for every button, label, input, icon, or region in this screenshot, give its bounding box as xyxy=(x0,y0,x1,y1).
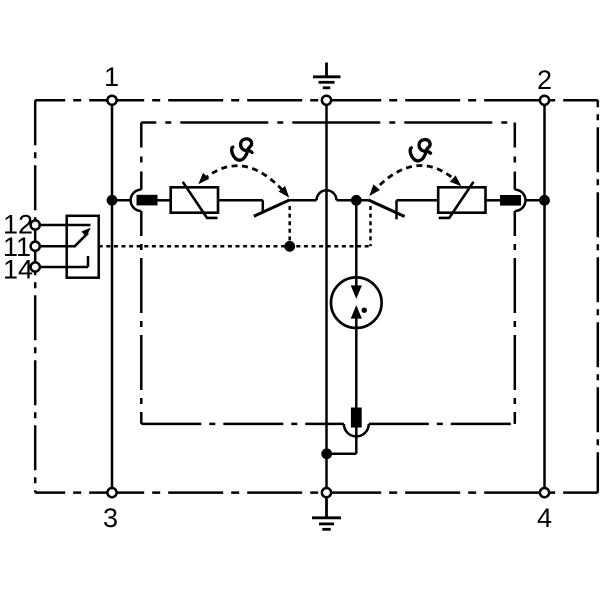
wire: pin to varistor left xyxy=(158,199,171,202)
terminal 12 xyxy=(31,220,40,229)
wire: node to GDT xyxy=(355,200,358,287)
wire hop over centre line xyxy=(317,190,337,200)
contact 14 stub xyxy=(87,256,90,267)
theta label right xyxy=(410,140,430,161)
earth symbol bottom xyxy=(312,498,341,529)
outer enclosure border (dash-dot chain line) xyxy=(35,100,598,492)
wire: across to centre line xyxy=(327,453,357,456)
terminal 14 xyxy=(31,262,40,271)
arrowhead left arc right end xyxy=(279,186,293,200)
wire: terminal 14 lead xyxy=(35,266,88,269)
plug-in pin right (filled) xyxy=(500,195,521,206)
wire: GDT to bottom pin xyxy=(355,318,358,408)
terminal 3 xyxy=(107,488,116,497)
thermal actuation arc left (dashed) xyxy=(204,166,287,194)
wire: bump to node and right switch pivot xyxy=(337,199,369,202)
terminal 2 xyxy=(540,96,549,105)
wire: centre earth line top circle to bottom circle xyxy=(325,100,328,492)
wire: left switch pivot to centre bump xyxy=(290,199,317,202)
terminal 4 xyxy=(540,488,549,497)
switch blade right (thermal disconnector) xyxy=(368,200,404,217)
wire: right contact fixed hook xyxy=(395,200,398,219)
wire: contact fixed hook left xyxy=(262,200,265,213)
module boundary hop arc (bottom contact) xyxy=(344,424,369,437)
plug-in pin left (filled) xyxy=(137,195,158,206)
changeover blade arrowhead xyxy=(81,225,93,237)
wire: terminal 12 lead xyxy=(35,224,90,227)
svg-text:3: 3 xyxy=(103,503,118,533)
wire: right fixed contact to varistor xyxy=(397,199,439,202)
plug-in pin bottom (filled) xyxy=(351,408,362,428)
junction node left column xyxy=(107,195,118,206)
thermal actuation arc right (dashed) xyxy=(373,166,458,193)
arrowhead left arc left end xyxy=(195,173,209,187)
varistor R1 diagonal with foot xyxy=(183,182,218,218)
junction node right column xyxy=(539,195,550,206)
arrowhead right arc left end xyxy=(366,184,380,198)
junction node linkage xyxy=(284,241,295,252)
dashed linkage left pivot xyxy=(288,206,291,246)
changeover blade xyxy=(74,233,88,247)
dashed linkage right pivot xyxy=(369,206,372,246)
junction node bottom xyxy=(321,448,332,459)
wire: right varistor to pin xyxy=(486,199,501,202)
module boundary hop arc (left contact) xyxy=(131,190,142,211)
terminal 11 xyxy=(31,242,40,251)
junction node GDT branch xyxy=(351,195,362,206)
earth symbol top xyxy=(313,63,341,88)
terminal top earth xyxy=(322,96,331,105)
theta label left xyxy=(232,139,252,160)
GDT lower electrode triangle xyxy=(351,305,362,319)
wire: terminal 11 lead xyxy=(35,245,74,248)
terminal 1 xyxy=(107,96,116,105)
module boundary hop arc (right contact) xyxy=(515,190,526,211)
GDT upper electrode triangle xyxy=(351,285,362,299)
svg-text:1: 1 xyxy=(104,62,119,92)
varistor R2 diagonal with foot xyxy=(439,182,474,218)
dashed linkage horizontal to remote contact xyxy=(99,245,371,248)
svg-text:4: 4 xyxy=(537,503,552,533)
varistor R2 body xyxy=(438,187,485,212)
wire: pin down xyxy=(355,428,358,454)
arrowhead right arc right end xyxy=(450,175,464,189)
wire: varistor to contact fixed side xyxy=(218,199,263,202)
svg-text:14: 14 xyxy=(3,255,33,285)
varistor R1 body xyxy=(171,187,218,212)
GDT gas dot xyxy=(362,308,367,313)
inner module boundary (dash-dot chain line) xyxy=(141,123,515,424)
wire: right column terminal 2 to terminal 4 xyxy=(543,100,546,492)
terminal bottom earth xyxy=(322,488,331,497)
switch blade left (thermal disconnector) xyxy=(254,200,290,216)
wire: right arc to right column xyxy=(525,199,545,202)
wire: left column terminal 1 to terminal 3 xyxy=(111,100,114,492)
remote signalling contact box xyxy=(67,216,99,278)
gas discharge tube circle xyxy=(331,277,382,328)
wire: main horizontal conductor left section xyxy=(112,199,131,202)
svg-text:2: 2 xyxy=(537,65,552,95)
